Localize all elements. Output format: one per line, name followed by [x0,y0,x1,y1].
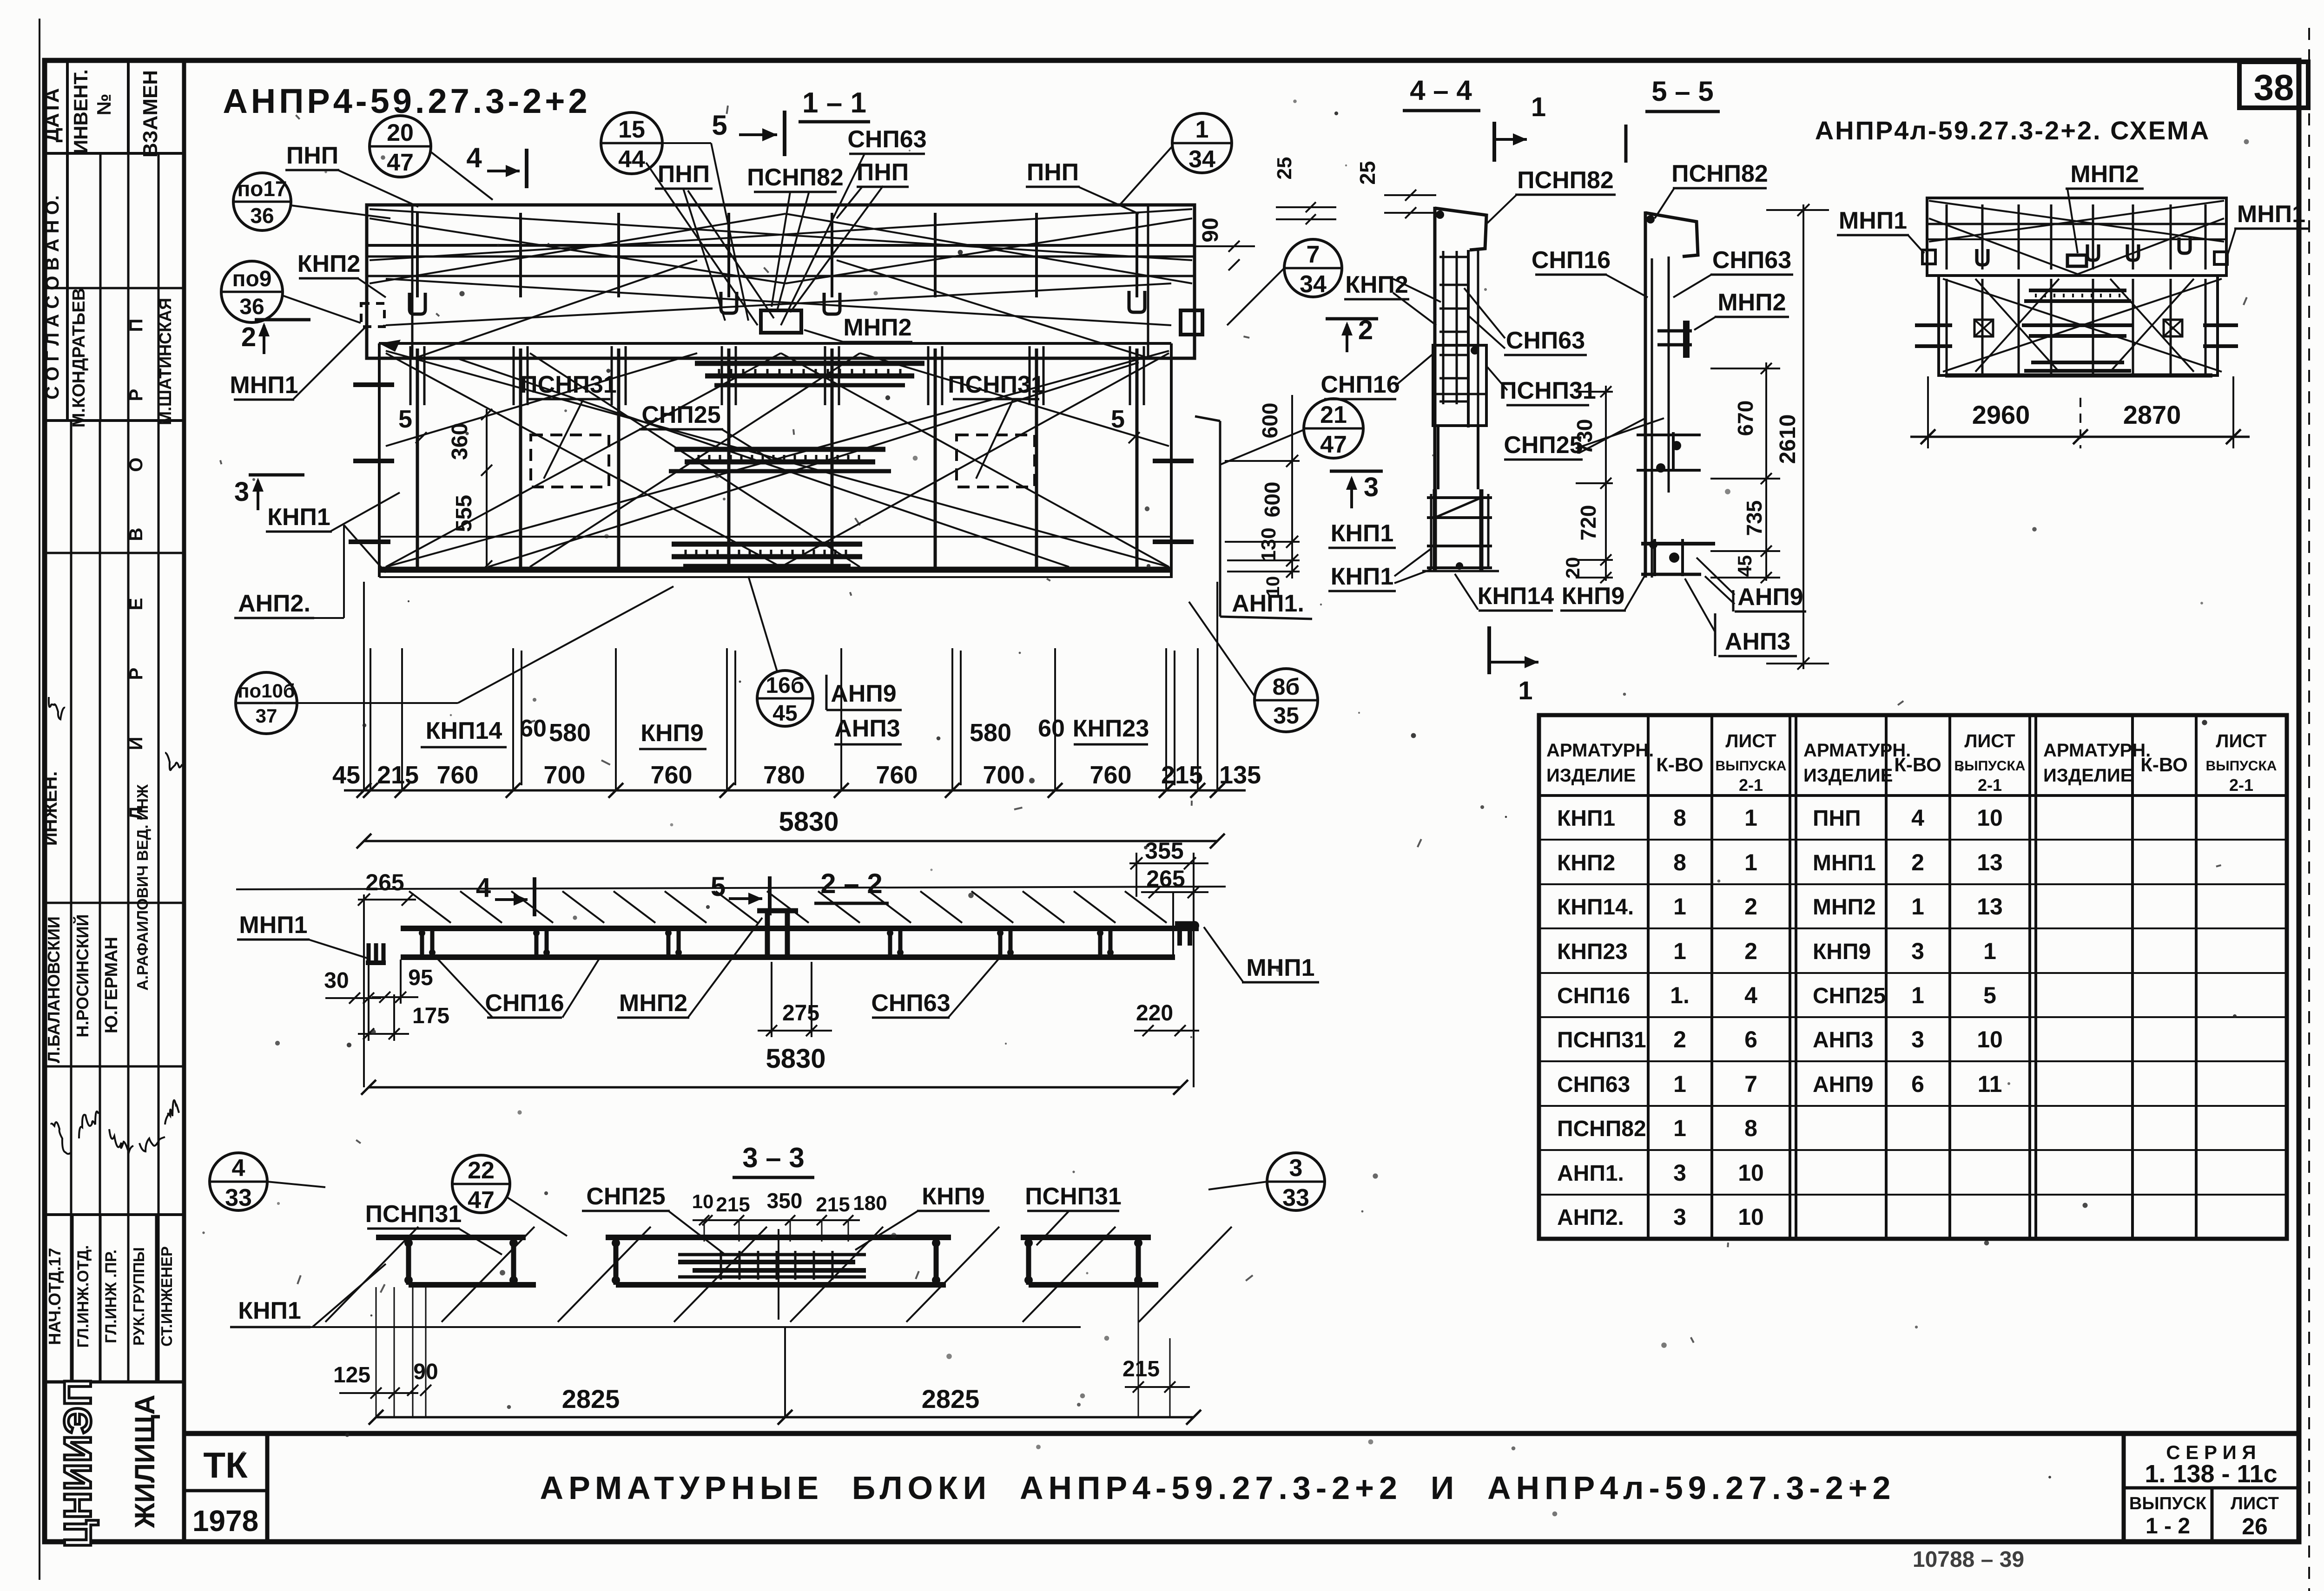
svg-text:АНПР4л-59.27.3-2+2. СХЕМА: АНПР4л-59.27.3-2+2. СХЕМА [1815,116,2211,145]
svg-text:600: 600 [1260,482,1284,518]
svg-text:АНП2.: АНП2. [1557,1205,1624,1230]
svg-text:НАЧ.ОТД.17: НАЧ.ОТД.17 [45,1248,64,1345]
svg-text:5830: 5830 [779,807,838,837]
svg-text:1 – 1: 1 – 1 [802,87,866,119]
svg-text:38: 38 [2254,67,2294,108]
svg-text:ТК: ТК [203,1445,248,1486]
svg-text:МНП1: МНП1 [1813,851,1876,875]
svg-text:125: 125 [333,1363,370,1387]
svg-text:1: 1 [1673,894,1686,920]
svg-text:КНП9: КНП9 [1562,583,1625,610]
svg-text:ПНП: ПНП [286,142,338,169]
svg-text:АНП3: АНП3 [834,715,900,742]
svg-text:Ю.ГЕРМАН: Ю.ГЕРМАН [102,937,121,1033]
svg-text:1: 1 [1673,1071,1686,1097]
svg-text:СНП63: СНП63 [847,126,926,153]
svg-text:2: 2 [1744,894,1757,920]
svg-text:47: 47 [1320,431,1347,458]
svg-text:11: 11 [1978,1071,2002,1097]
svg-text:780: 780 [763,761,805,789]
position bubbles (fraction circles) [370,116,431,177]
svg-text:3: 3 [1364,472,1379,502]
svg-text:10: 10 [692,1190,714,1212]
svg-text:СНП25: СНП25 [586,1183,665,1210]
svg-text:700: 700 [983,761,1024,789]
svg-text:35: 35 [1273,703,1299,729]
svg-text:АНП3: АНП3 [1813,1028,1874,1052]
svg-text:ИЗДЕЛИЕ: ИЗДЕЛИЕ [1546,765,1636,786]
svg-text:3: 3 [1289,1155,1303,1182]
svg-text:215: 215 [716,1193,750,1216]
right step outline + ANP1 label [1195,416,1220,421]
svg-text:ЛИСТ: ЛИСТ [1725,731,1776,751]
svg-text:1978: 1978 [192,1504,258,1538]
svg-text:90: 90 [1198,217,1223,242]
svg-text:1: 1 [1744,805,1757,831]
svg-text:АНП9: АНП9 [831,680,896,707]
svg-text:П: П [126,319,146,332]
svg-text:ПНП: ПНП [1813,806,1861,831]
vertical dim chain 600/600/130/10 [1291,395,1293,579]
svg-text:2: 2 [1673,1026,1686,1052]
svg-text:3: 3 [234,477,249,507]
svg-text:МНП2: МНП2 [843,314,911,341]
svg-text:3: 3 [1911,938,1924,964]
svg-text:ВЫПУСКА: ВЫПУСКА [1954,758,2026,774]
svg-text:ИНЖЕН.: ИНЖЕН. [40,771,61,846]
svg-text:ЛИСТ: ЛИСТ [2231,1494,2279,1513]
svg-text:15: 15 [618,116,645,143]
table grid [1539,715,2287,1239]
svg-text:СНП63: СНП63 [1557,1072,1630,1097]
svg-text:СНП63: СНП63 [871,990,950,1017]
svg-text:220: 220 [1136,1001,1173,1026]
svg-text:670: 670 [1733,401,1757,436]
svg-text:ПНП: ПНП [1027,159,1079,186]
svg-text:3: 3 [1911,1026,1924,1052]
svg-text:АНП3: АНП3 [1725,628,1790,655]
svg-text:1: 1 [1673,1115,1686,1141]
svg-text:КНП14.: КНП14. [1557,895,1634,920]
svg-text:8б: 8б [1273,674,1300,700]
svg-text:60: 60 [520,715,547,742]
svg-text:5 – 5: 5 – 5 [1651,76,1713,107]
svg-text:ЛИСТ: ЛИСТ [1964,731,2015,751]
svg-text:47: 47 [468,1187,495,1214]
svg-text:2-1: 2-1 [1739,776,1763,795]
svg-text:ДАТА: ДАТА [40,88,63,143]
svg-text:37: 37 [256,705,277,727]
svg-text:45: 45 [772,701,797,726]
svg-text:М.КОНДРАТЬЕВ: М.КОНДРАТЬЕВ [69,288,89,427]
svg-text:1. 138 - 11с: 1. 138 - 11с [2145,1460,2277,1488]
svg-text:ВЗАМЕН: ВЗАМЕН [139,70,162,158]
svg-text:МНП2: МНП2 [619,990,687,1017]
svg-text:М.ШАТИНСКАЯ: М.ШАТИНСКАЯ [156,298,175,425]
dashed openings PSNP31 [531,435,609,487]
svg-text:580: 580 [970,719,1011,747]
svg-text:2960: 2960 [1972,400,2030,429]
svg-text:МНП1: МНП1 [2237,201,2305,228]
svg-text:1: 1 [1744,849,1757,875]
svg-text:ВЫПУСК: ВЫПУСК [2129,1494,2207,1513]
svg-text:5: 5 [1983,982,1996,1008]
svg-text:20: 20 [387,119,414,146]
svg-text:О: О [126,457,146,472]
svg-text:355: 355 [1145,838,1183,864]
svg-text:КНП1: КНП1 [1331,563,1394,590]
svg-text:580: 580 [549,719,591,747]
svg-text:6: 6 [1744,1026,1757,1052]
scan noise specks [873,291,878,295]
svg-text:10: 10 [1977,805,2003,831]
svg-text:8: 8 [1673,805,1686,831]
rebar clusters SNP25 [695,361,924,366]
svg-text:275: 275 [782,1001,819,1026]
svg-text:7: 7 [1307,241,1320,268]
svg-text:КНП2: КНП2 [1345,271,1408,298]
top band (PNP rail panel) [367,205,1195,358]
svg-text:2825: 2825 [922,1384,980,1413]
svg-text:2: 2 [241,322,256,352]
svg-text:3 – 3: 3 – 3 [742,1142,804,1173]
svg-text:8: 8 [1673,849,1686,875]
svg-text:ПСНП82: ПСНП82 [1671,160,1768,187]
svg-text:16б: 16б [766,673,804,698]
svg-text:2-1: 2-1 [1978,776,2002,795]
svg-text:4: 4 [232,1155,245,1182]
svg-text:33: 33 [225,1184,252,1211]
page right edge thin line [2308,28,2310,1591]
svg-text:АНП9: АНП9 [1737,584,1803,611]
svg-text:МНП1: МНП1 [239,912,307,939]
svg-text:АНП9: АНП9 [1813,1072,1874,1097]
svg-text:АРМАТУРН.: АРМАТУРН. [1546,740,1654,761]
svg-text:КНП23: КНП23 [1557,940,1628,964]
svg-text:МНП2: МНП2 [2070,161,2139,188]
svg-text:Н.РОСИНСКИЙ: Н.РОСИНСКИЙ [73,914,92,1037]
svg-text:СНП63: СНП63 [1506,327,1585,354]
svg-text:8: 8 [1744,1115,1757,1141]
svg-text:760: 760 [436,761,478,789]
svg-text:21: 21 [1320,401,1347,428]
svg-text:КНП1: КНП1 [1331,520,1394,547]
svg-text:1: 1 [1911,894,1924,920]
svg-text:СНП16: СНП16 [1532,247,1611,274]
left stamp column [182,60,186,1542]
svg-text:1.: 1. [1670,982,1690,1008]
svg-text:КНП9: КНП9 [922,1183,985,1210]
sheet number box 38 [2239,62,2308,108]
svg-text:44: 44 [618,146,645,173]
svg-text:4: 4 [1744,982,1757,1008]
svg-text:ИЗДЕЛИЕ: ИЗДЕЛИЕ [2043,765,2133,786]
svg-text:по10б: по10б [238,680,295,702]
svg-text:ЛИСТ: ЛИСТ [2216,731,2266,751]
svg-text:по9: по9 [232,267,271,291]
svg-text:ПСНП82: ПСНП82 [1517,167,1614,194]
svg-text:60: 60 [1038,715,1065,742]
svg-text:5: 5 [1111,405,1125,433]
svg-text:Е: Е [126,598,146,611]
svg-text:1: 1 [1518,676,1532,705]
svg-text:760: 760 [1089,761,1131,789]
svg-text:265: 265 [365,869,404,895]
svg-text:13: 13 [1977,894,2003,920]
svg-text:КНП2: КНП2 [297,250,361,277]
svg-text:360: 360 [448,423,472,460]
svg-text:И: И [126,737,146,750]
svg-text:10: 10 [1263,576,1283,597]
svg-text:2870: 2870 [2123,400,2181,429]
svg-text:МНП1: МНП1 [1246,954,1314,981]
svg-text:760: 760 [876,761,918,789]
svg-text:КНП1: КНП1 [1557,806,1615,831]
svg-text:ЖИЛИЩА: ЖИЛИЩА [129,1394,160,1528]
svg-text:К-ВО: К-ВО [1656,754,1703,776]
svg-text:ГЛ.ИНЖ .ПР.: ГЛ.ИНЖ .ПР. [102,1249,120,1343]
svg-text:СНП16: СНП16 [1320,371,1400,398]
svg-text:215: 215 [1161,761,1203,789]
svg-text:КНП1: КНП1 [267,504,330,531]
svg-text:МНП2: МНП2 [1717,289,1786,316]
svg-text:ПНП: ПНП [658,161,710,188]
svg-text:КНП9: КНП9 [1813,940,1871,964]
svg-text:2-1: 2-1 [2229,776,2253,795]
svg-text:555: 555 [452,495,476,532]
3-3 bold frames [376,1235,526,1240]
title bar top line [184,1431,2299,1436]
svg-text:В: В [126,528,146,541]
svg-text:2610: 2610 [1776,414,1800,464]
svg-text:5830: 5830 [766,1044,825,1074]
svg-text:2: 2 [1744,938,1757,964]
svg-text:МНП1: МНП1 [230,372,298,399]
svg-text:2825: 2825 [562,1384,620,1413]
svg-text:№: № [93,94,115,116]
svg-text:600: 600 [1258,403,1282,439]
svg-text:95: 95 [408,966,433,990]
svg-text:33: 33 [1282,1184,1309,1211]
svg-text:265: 265 [1146,866,1185,892]
svg-text:720: 720 [1576,505,1600,541]
svg-text:2: 2 [1911,849,1924,875]
2-2 chords and connectors [401,926,1199,931]
svg-text:ПСНП31: ПСНП31 [365,1201,462,1228]
svg-text:АРМАТУРНЫЕ БЛОКИ АНПР4-59.27: АРМАТУРНЫЕ БЛОКИ АНПР4-59.27.3-2+2 И АНП… [540,1470,1896,1506]
svg-text:ВЫПУСКА: ВЫПУСКА [1716,758,1787,774]
svg-text:3: 3 [1673,1160,1686,1186]
schematic frame [1927,198,2226,276]
svg-text:10: 10 [1738,1204,1764,1230]
svg-text:1: 1 [1673,938,1686,964]
svg-text:А.РАФАИЛОВИЧ ВЕД. ИНЖ: А.РАФАИЛОВИЧ ВЕД. ИНЖ [134,784,151,991]
svg-text:3: 3 [1673,1204,1686,1230]
svg-text:180: 180 [853,1192,887,1215]
svg-text:АНП1.: АНП1. [1557,1161,1624,1186]
svg-text:ГЛ.ИНЖ.ОТД.: ГЛ.ИНЖ.ОТД. [74,1245,92,1348]
svg-text:КНП9: КНП9 [640,720,704,747]
svg-text:МНП2: МНП2 [1813,895,1876,920]
svg-text:6: 6 [1911,1071,1924,1097]
svg-text:АРМАТУРН.: АРМАТУРН. [2043,740,2151,761]
svg-text:760: 760 [650,761,692,789]
svg-text:ПСНП31: ПСНП31 [1025,1183,1122,1210]
svg-text:45: 45 [332,761,360,789]
svg-text:С О Г Л А С О В А Н О.: С О Г Л А С О В А Н О. [42,195,63,400]
svg-text:СНП16: СНП16 [485,990,564,1017]
svg-text:ЦНИИЭП: ЦНИИЭП [57,1378,99,1548]
svg-text:КНП14: КНП14 [1478,583,1554,610]
svg-text:175: 175 [412,1004,449,1028]
svg-text:Л.БАЛАНОВСКИЙ: Л.БАЛАНОВСКИЙ [44,916,63,1063]
svg-text:ПСНП82: ПСНП82 [1557,1117,1646,1141]
svg-text:МНП1: МНП1 [1839,207,1907,234]
svg-text:30: 30 [324,968,349,993]
svg-text:26: 26 [2242,1513,2268,1539]
svg-text:1: 1 [1911,982,1924,1008]
svg-text:ПСНП31: ПСНП31 [1557,1028,1646,1052]
svg-text:735: 735 [1742,500,1766,536]
dimension chain 45-215-760-700-760-780-760-700-760-215-135 and 5830 [370,648,371,790]
svg-text:215: 215 [1122,1357,1160,1381]
svg-text:КНП1: КНП1 [238,1297,301,1324]
svg-text:КНП14: КНП14 [426,717,502,744]
svg-text:130: 130 [1257,527,1280,561]
svg-text:СТ.ИНЖЕНЕР: СТ.ИНЖЕНЕР [158,1246,175,1347]
anchor plate MNP2 [761,310,801,333]
svg-text:СНП63: СНП63 [1712,247,1791,274]
svg-text:АНП2.: АНП2. [238,590,310,617]
svg-text:20: 20 [1562,557,1584,579]
svg-text:5: 5 [398,405,412,433]
svg-text:К-ВО: К-ВО [2140,754,2188,776]
svg-text:215: 215 [816,1193,850,1216]
svg-text:1: 1 [1983,938,1996,964]
svg-text:4 – 4: 4 – 4 [1410,75,1472,106]
svg-text:СНП25: СНП25 [1813,984,1886,1008]
svg-text:350: 350 [767,1189,803,1213]
svg-text:135: 135 [1219,761,1261,789]
main body (wall panel outline) [379,342,1171,345]
svg-text:ИНВЕНТ.: ИНВЕНТ. [70,69,92,154]
svg-text:45: 45 [1734,555,1756,577]
svg-text:1 - 2: 1 - 2 [2146,1514,2190,1538]
svg-text:25: 25 [1273,157,1296,180]
svg-text:ПНП: ПНП [857,159,909,186]
svg-text:по17: по17 [237,177,287,201]
svg-text:ПСНП82: ПСНП82 [747,164,844,191]
svg-text:ВЫПУСКА: ВЫПУСКА [2206,758,2277,774]
svg-text:ПСНП31: ПСНП31 [948,371,1044,398]
svg-text:22: 22 [468,1157,495,1184]
svg-text:5: 5 [712,110,727,141]
svg-text:АНПР4-59.27.3-2+2: АНПР4-59.27.3-2+2 [223,82,590,120]
svg-text:ИЗДЕЛИЕ: ИЗДЕЛИЕ [1803,765,1893,786]
svg-text:РУК.ГРУППЫ: РУК.ГРУППЫ [130,1247,147,1346]
svg-text:34: 34 [1188,146,1215,173]
svg-text:36: 36 [239,295,264,319]
svg-text:КНП23: КНП23 [1073,715,1149,742]
svg-text:1: 1 [1195,116,1209,143]
svg-text:10788 – 39: 10788 – 39 [1913,1547,2024,1572]
svg-text:215: 215 [377,761,419,789]
svg-text:1: 1 [1531,92,1546,122]
svg-text:34: 34 [1300,271,1327,298]
svg-text:4: 4 [1911,805,1924,831]
svg-text:К-ВО: К-ВО [1894,754,1941,776]
svg-text:10: 10 [1977,1026,2003,1052]
svg-text:47: 47 [387,149,414,176]
svg-text:700: 700 [543,761,585,789]
svg-text:36: 36 [250,204,274,228]
svg-text:25: 25 [1355,161,1380,184]
svg-text:Р: Р [126,389,146,401]
svg-text:4: 4 [466,142,482,173]
svg-text:СНП25: СНП25 [1504,432,1583,459]
svg-text:СНП16: СНП16 [1557,984,1630,1008]
svg-text:7: 7 [1744,1071,1757,1097]
svg-text:13: 13 [1977,849,2003,875]
page outer thin border left [39,19,40,1580]
svg-text:10: 10 [1738,1160,1764,1186]
svg-text:КНП2: КНП2 [1557,851,1615,875]
svg-text:Р: Р [126,668,146,680]
